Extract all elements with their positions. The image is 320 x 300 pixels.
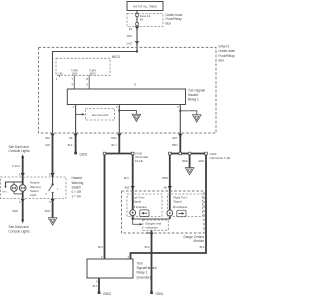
svg-text:Box: Box (219, 58, 225, 62)
lamp bus (6, 182, 23, 186)
svg-text:BRN: BRN (172, 143, 178, 147)
svg-text:E3: E3 (129, 27, 133, 31)
svg-text:Fuse/Relay: Fuse/Relay (219, 54, 236, 58)
svg-text:6: 6 (49, 172, 51, 176)
svg-text:BLK: BLK (145, 245, 150, 249)
cavity NSD (118, 134, 121, 138)
connector C418 junction (105, 153, 133, 155)
gauge control module (dashed box) (122, 191, 205, 233)
svg-text:Hazard: Hazard (188, 93, 199, 97)
right turn signal indicator (dashed box) (168, 194, 203, 217)
wire MICU pin7 to relay pin4 (73, 75, 75, 89)
cavity NET (179, 134, 182, 138)
ground G503 (98, 291, 101, 294)
svg-text:(Sounder): (Sounder) (137, 275, 151, 279)
svg-text:Light: Light (30, 193, 36, 197)
svg-text:RED: RED (13, 209, 19, 213)
svg-text:Switch: Switch (72, 185, 82, 189)
svg-text:NET: NET (172, 136, 178, 140)
svg-text:WHT: WHT (45, 209, 51, 213)
cavity HAZ of hazard feed (51, 134, 54, 138)
svg-text:WHT: WHT (127, 34, 133, 38)
left arrow icon (140, 210, 149, 217)
svg-text:NSD: NSD (111, 136, 117, 140)
wire C420 to gauge A6 (169, 155, 171, 220)
svg-text:A6: A6 (163, 185, 167, 189)
svg-text:1: 1 (72, 105, 74, 109)
wire C420 right to relay2 pin1 (131, 155, 207, 260)
svg-text:13-16): 13-16) (135, 159, 143, 163)
svg-text:BLU: BLU (98, 245, 103, 249)
svg-text:5: 5 (49, 200, 51, 204)
svg-text:3: 3 (96, 280, 98, 284)
svg-text:Driver's: Driver's (219, 45, 230, 49)
under-hood fuse/relay box (dashed) (127, 14, 163, 27)
fuse F16 (136, 11, 138, 52)
svg-text:Relay 2: Relay 2 (137, 271, 148, 275)
svg-text:Turn: Turn (137, 261, 144, 265)
svg-text:LT BLU: LT BLU (12, 165, 20, 168)
svg-text:GRY: GRY (45, 143, 51, 147)
svg-text:5: 5 (86, 83, 88, 87)
svg-text:BRN: BRN (182, 159, 188, 163)
svg-text:G601: G601 (80, 152, 88, 156)
svg-text:3: 3 (19, 172, 21, 176)
svg-text:GRN: GRN (198, 159, 204, 163)
svg-text:8: 8 (86, 77, 88, 81)
turn signal/hazard relay 2 (sounder) (87, 259, 133, 278)
svg-text:(+B): (+B) (58, 72, 63, 75)
svg-text:A8: A8 (146, 231, 150, 235)
svg-text:0 = Off: 0 = Off (72, 190, 82, 194)
svg-text:MICU: MICU (112, 55, 121, 59)
cavity HB (74, 134, 77, 138)
middle continuation arrow (189, 155, 191, 168)
svg-text:Hazard: Hazard (72, 176, 83, 180)
wire C418 to gauge B11 (132, 155, 134, 220)
branch to continuation arrow (180, 111, 197, 115)
wire A8 to G501 (151, 230, 153, 291)
svg-text:Box: Box (166, 21, 172, 25)
svg-text:Signal: Signal (133, 199, 141, 203)
wire relay1 pin1 to G601 (75, 105, 77, 134)
svg-text:BRN: BRN (163, 176, 169, 180)
MICU (dashed box) (56, 58, 110, 75)
svg-text:BLU: BLU (124, 176, 129, 180)
svg-text:(Terminals 7-12): (Terminals 7-12) (210, 156, 231, 160)
svg-text:Indicators: Indicators (145, 225, 158, 229)
hazard lamp right (19, 185, 26, 192)
continuation arrow below switch (48, 218, 57, 225)
driver's under-dash fuse/relay box (dashed) (39, 47, 217, 133)
left turn signal indicator (dashed box) (127, 194, 162, 217)
gauges and indicators reference box (143, 220, 169, 230)
hazard lamp left (13, 182, 15, 194)
svg-text:1: 1 (57, 188, 59, 191)
svg-text:Under-dash: Under-dash (219, 49, 236, 53)
wire C418 to relay2 pin2 (104, 155, 106, 260)
svg-text:Console Lights: Console Lights (9, 149, 30, 153)
svg-text:Signal/Hazard: Signal/Hazard (137, 266, 157, 270)
svg-text:9: 9 (134, 83, 136, 87)
branch to gauges and indicators ref (133, 219, 140, 224)
svg-text:BLK: BLK (200, 245, 205, 249)
wire to switch pin 3 (22, 157, 24, 178)
wire MICU pin8 to relay pin5 (88, 75, 90, 89)
svg-text:Relay 1: Relay 1 (188, 98, 199, 102)
svg-text:Signal: Signal (174, 199, 182, 203)
svg-text:(SW): (SW) (72, 72, 78, 75)
svg-text:BRN: BRN (2, 192, 7, 194)
svg-text:Module: Module (194, 239, 205, 243)
svg-text:See Dash and: See Dash and (9, 225, 29, 229)
svg-text:See Grounds: See Grounds (92, 113, 109, 117)
indicator lamp bus (133, 218, 170, 220)
branch to continuation arrow (119, 111, 136, 115)
svg-text:4: 4 (71, 83, 73, 87)
svg-text:BLU: BLU (111, 143, 116, 147)
left indicator lamp (130, 210, 136, 216)
svg-text:Warning: Warning (72, 181, 84, 185)
svg-text:HAZ: HAZ (45, 136, 51, 140)
svg-text:7: 7 (71, 77, 73, 81)
svg-text:4: 4 (19, 200, 21, 204)
svg-text:Indicator: Indicator (136, 205, 147, 209)
svg-text:BLK: BLK (68, 143, 73, 147)
svg-text:Console Lights: Console Lights (9, 230, 30, 234)
turn signal/hazard relay 1 (67, 89, 185, 105)
switch contact (52, 177, 54, 184)
svg-text:HOT AT ALL TIMES: HOT AT ALL TIMES (133, 5, 157, 9)
see grounds reference box (86, 109, 115, 121)
svg-text:Turn Signal/: Turn Signal/ (188, 89, 205, 93)
svg-text:1: 1 (56, 77, 58, 81)
svg-text:HB: HB (69, 136, 73, 140)
svg-text:Indicator: Indicator (176, 205, 187, 209)
right arrow icon (177, 210, 186, 217)
connector C420 junction (170, 153, 206, 155)
svg-text:G503: G503 (103, 292, 111, 296)
svg-text:3: 3 (177, 105, 179, 109)
svg-text:2: 2 (116, 105, 118, 109)
hazard warning switch box (1, 177, 67, 199)
svg-text:BLK: BLK (93, 284, 98, 288)
svg-text:1 = On: 1 = On (72, 195, 82, 199)
ground G501 (150, 291, 153, 294)
svg-text:(BAT): (BAT) (89, 72, 95, 75)
branch to see grounds (76, 113, 82, 115)
svg-text:G501: G501 (156, 292, 164, 296)
svg-text:C417: C417 (126, 42, 133, 46)
power feed box: HOT AT ALL TIMES (127, 2, 163, 11)
right indicator lamp (167, 210, 173, 216)
wire: feed branch to hazard (53, 52, 138, 134)
MICU pin 1 stub (59, 75, 61, 77)
svg-text:B11: B11 (125, 185, 130, 189)
wire hazard feed down to switch (52, 134, 54, 177)
ground G601 (74, 152, 77, 155)
svg-text:0: 0 (46, 193, 48, 196)
svg-text:6A: 6A (140, 18, 144, 22)
